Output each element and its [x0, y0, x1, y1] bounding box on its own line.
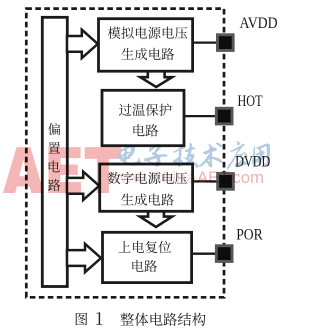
- svg-text:HOT: HOT: [238, 91, 263, 110]
- pin label DVDD: [235, 151, 270, 170]
- label 生成电路 (digital): [121, 193, 174, 205]
- label 上电复位: [118, 241, 171, 253]
- AVDD pad: [216, 33, 235, 52]
- wire: digital supply box to DVDD pad: [193, 180, 219, 182]
- bias circuit box (偏置电路): [42, 17, 67, 286]
- block arrow: bias to POR box: [67, 244, 101, 272]
- wire: thermal box to HOT pad: [184, 115, 218, 117]
- caption 图 1 整体电路结构: [76, 312, 206, 326]
- pin label HOT: [238, 91, 263, 110]
- thermal protection box: [102, 90, 184, 145]
- block arrow: digital supply box down to POR box: [140, 210, 172, 227]
- svg-text:POR: POR: [236, 224, 263, 243]
- svg-text:AVDD: AVDD: [240, 13, 278, 32]
- label 电路 (POR): [132, 260, 157, 272]
- POR pad: [215, 244, 234, 263]
- watermark group: [3, 141, 270, 193]
- analog supply voltage generator box: [99, 19, 193, 71]
- watermark url www.ChinaAET.com: [106, 168, 264, 187]
- svg-text:www.China: www.China: [106, 168, 197, 187]
- wire: POR box to POR pad: [192, 253, 218, 255]
- watermark calligraphy 电子技术应用: [117, 141, 270, 169]
- svg-text:AET.com: AET.com: [197, 168, 264, 187]
- digital supply voltage generator box: [100, 164, 193, 211]
- pin label AVDD: [240, 13, 278, 32]
- wire: analog supply box to AVDD pad: [193, 41, 219, 43]
- label 电路 (thermal): [133, 124, 158, 136]
- label 生成电路 (analog): [121, 48, 174, 60]
- watermark AET letters: [3, 147, 121, 193]
- bias circuit vertical label 偏置电路: [48, 123, 60, 191]
- label 模拟电源电压: [108, 27, 188, 39]
- block arrow: bias to analog supply box: [67, 30, 98, 58]
- HOT pad: [215, 107, 234, 126]
- block arrow: bias to digital supply box: [67, 172, 99, 200]
- pin label POR: [236, 224, 263, 243]
- label 过温保护: [119, 104, 172, 116]
- block arrow: analog supply box down to thermal box: [140, 70, 172, 87]
- DVDD pad: [216, 172, 235, 191]
- chip boundary (dashed box): [26, 9, 224, 298]
- power-on reset box: [103, 232, 192, 282]
- label 数字电源电压: [108, 172, 187, 184]
